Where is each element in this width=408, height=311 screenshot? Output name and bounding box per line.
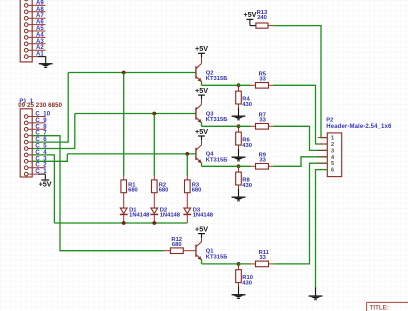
wire C_5 riser to Q3 base row (74, 114, 76, 150)
svg-text:680: 680 (192, 188, 202, 194)
ground (below R8) (232, 189, 246, 201)
wire R13 to P2 pin 1 (274, 26, 327, 138)
pin 1 of P2 (318, 136, 334, 142)
pin A6 of CN1 (24, 20, 45, 27)
svg-text:A9: A9 (36, 0, 44, 6)
svg-text:A4: A4 (36, 32, 44, 38)
svg-text:33: 33 (259, 255, 266, 261)
pin A7 of CN1 (24, 13, 45, 20)
junction node Q1 emitter / R10 (237, 262, 241, 266)
svg-text:Header-Male-2.54_1x6: Header-Male-2.54_1x6 (326, 124, 392, 130)
svg-text:430: 430 (242, 281, 252, 287)
diode D2 1N4148 (150, 207, 180, 223)
pin A5 of CN1 (24, 26, 45, 33)
svg-text:+5V: +5V (39, 179, 52, 188)
svg-text:A8: A8 (36, 7, 44, 13)
pin A8 of CN1 (24, 7, 45, 14)
svg-text:+5V: +5V (195, 44, 208, 53)
pin C_4 of P1_1 (24, 150, 47, 157)
junction node Q4 emitter / R8 (237, 164, 241, 168)
+5V flag (Q3 collector) (195, 86, 208, 100)
transistor Q4 KT315B (195, 140, 201, 163)
wire Q1 emitter to R11 (202, 263, 251, 265)
wire emitter of Q4 (201, 163, 203, 167)
svg-text:KT315Б: KT315Б (206, 254, 228, 260)
svg-text:TITLE:: TITLE: (370, 304, 389, 311)
resistor R4 430 (236, 85, 252, 108)
svg-text:430: 430 (242, 183, 252, 189)
svg-text:KT315Б: KT315Б (206, 117, 228, 123)
wire C_6 row (33, 141, 68, 143)
resistor R3 680 (185, 176, 202, 209)
pin C_9 of P1_1 (24, 118, 47, 125)
junction node base row / R3 (185, 152, 189, 156)
svg-text:6: 6 (331, 168, 334, 174)
svg-text:240: 240 (257, 15, 267, 21)
pin A1 of CN1 (24, 52, 44, 59)
junction node base row / R2 (152, 112, 156, 116)
pin C_3 of P1_1 (24, 156, 47, 163)
pin 2 of P2 (318, 142, 334, 148)
wire base of Q3 (75, 113, 196, 115)
wire Q1 emitter net to P2 pin 5 (273, 163, 327, 264)
ground (A1 pin) (38, 56, 53, 68)
transistor Q1 KT315B (195, 238, 201, 260)
wire base of Q2 (68, 72, 196, 74)
resistor R13 240 (256, 10, 274, 28)
resistor R9 33 (251, 153, 274, 170)
+5V flag (Q2 collector) (195, 44, 208, 58)
pin C_1 of P1_1 (24, 169, 47, 176)
ground (P2 pin 6) (309, 288, 323, 301)
diode D3 1N4148 (183, 207, 213, 223)
wire C_7 row (33, 135, 60, 137)
pin A9 of CN1 (24, 0, 45, 7)
svg-text:P2: P2 (326, 118, 333, 124)
wire emitter of Q2 (201, 81, 203, 85)
connector CN1 body (top-left, A bus) (20, 0, 32, 62)
pin 6 of P2 (318, 168, 334, 174)
svg-text:1N4148: 1N4148 (129, 213, 150, 219)
svg-text:33: 33 (259, 158, 266, 164)
svg-text:1N4148: 1N4148 (160, 213, 181, 219)
wire C_7 riser to R12 row (59, 135, 61, 251)
wire P2 pin 6 to ground (316, 170, 328, 288)
svg-text:+5V: +5V (195, 127, 208, 136)
svg-text:430: 430 (242, 143, 252, 149)
wire R1 top (123, 73, 125, 176)
resistor R8 430 (236, 166, 252, 189)
svg-text:5: 5 (331, 161, 334, 167)
svg-text:430: 430 (242, 102, 252, 108)
pin A3 of CN1 (24, 39, 45, 46)
pin C_5 of P1_1 (24, 144, 47, 151)
pin A10 (partial) of CN1 (24, 0, 45, 1)
svg-text:1N4148: 1N4148 (193, 213, 214, 219)
junction node D2 / diode rail (152, 221, 156, 225)
wire Q2 emitter to R5 (202, 84, 251, 86)
pin 3 of P2 (318, 148, 334, 154)
wire C_3 riser to Q4 base row (66, 154, 68, 162)
transistor Q2 KT315B (195, 57, 201, 81)
connector P1_1 body (20, 109, 32, 177)
+5V flag (R13) (243, 10, 256, 25)
wire C_4 riser to diode rail (53, 154, 55, 223)
svg-text:2: 2 (331, 142, 334, 148)
wire C_5 row (33, 148, 75, 150)
pin 4 of P2 (318, 155, 335, 161)
resistor R2 680 (152, 176, 169, 209)
wire base of Q4 (67, 153, 196, 155)
wire R2 top (153, 114, 155, 176)
svg-text:KT315Б: KT315Б (206, 158, 228, 164)
svg-text:680: 680 (128, 188, 138, 194)
svg-text:A6: A6 (36, 20, 44, 26)
wire C_3 row (33, 160, 67, 162)
ground (below R4) (232, 108, 246, 120)
svg-text:33: 33 (259, 118, 266, 124)
svg-text:680: 680 (159, 188, 169, 194)
svg-text:3: 3 (331, 148, 334, 154)
svg-text:A2: A2 (36, 45, 44, 51)
resistor R6 430 (236, 126, 252, 149)
svg-text:+5V: +5V (243, 10, 256, 19)
svg-text:33: 33 (259, 77, 266, 83)
svg-text:C_2: C_2 (35, 163, 47, 169)
wire R12 row (Q1 base net) (59, 250, 163, 252)
svg-text:C_9: C_9 (35, 118, 47, 124)
resistor R5 33 (251, 72, 274, 89)
transistor Q3 KT315B (195, 99, 201, 123)
pin C_7 of P1_1 (24, 131, 47, 138)
pin C_2 of P1_1 (24, 163, 47, 170)
junction node D1 / diode rail (122, 221, 126, 225)
svg-text:+5V: +5V (195, 86, 208, 95)
resistor R7 33 (251, 113, 274, 130)
wire Q4 emitter net to P2 pin 4 (273, 157, 327, 167)
wire Q4 emitter to R9 (202, 165, 251, 167)
svg-text:C_10: C_10 (35, 112, 50, 118)
resistor R11 33 (251, 250, 274, 267)
svg-text:+5V: +5V (195, 224, 208, 233)
wire Q3 emitter net to P2 pin 3 (273, 126, 327, 150)
connector P2 body (327, 133, 341, 177)
pin C_6 of P1_1 (24, 137, 47, 144)
junction node base row / R1 (122, 71, 126, 75)
pin 5 of P2 (318, 161, 334, 167)
wire Q3 emitter to R7 (202, 125, 251, 127)
wire C_6 riser to Q2 base row (67, 73, 69, 143)
pin C_8 of P1_1 (24, 124, 47, 131)
svg-text:C_8: C_8 (35, 124, 47, 130)
pin C_10 of P1_1 (24, 112, 50, 119)
+5V flag (C_1 pin) (38, 174, 52, 189)
resistor R10 430 (236, 264, 253, 287)
ground (below R6) (232, 149, 246, 161)
svg-text:A7: A7 (36, 13, 44, 19)
wire emitter of Q3 (201, 122, 203, 126)
ground (below R10) (232, 287, 246, 299)
junction node Q3 emitter / R6 (237, 124, 241, 128)
+5V flag (Q4 collector) (195, 127, 208, 141)
junction node Q2 emitter / R4 (237, 83, 241, 87)
wire Q2 emitter net to P2 pin 2 (273, 85, 327, 144)
wire emitter of Q1 (201, 259, 203, 264)
svg-text:A3: A3 (36, 39, 44, 45)
+5V flag (Q1 collector) (195, 224, 208, 238)
svg-text:680: 680 (172, 242, 182, 248)
pin A4 of CN1 (24, 32, 45, 39)
resistor R12 680 (164, 237, 196, 253)
wire diode rail (54, 222, 187, 224)
diode D1 1N4148 (120, 207, 150, 223)
resistor R1 680 (121, 176, 138, 209)
svg-text:A5: A5 (36, 26, 44, 32)
wire R3 top (186, 154, 188, 176)
svg-text:KT315Б: KT315Б (206, 76, 228, 82)
title block frame (367, 302, 408, 311)
pin A2 of CN1 (24, 45, 45, 52)
svg-text:1: 1 (331, 136, 334, 142)
wire C_4 row (33, 154, 54, 156)
